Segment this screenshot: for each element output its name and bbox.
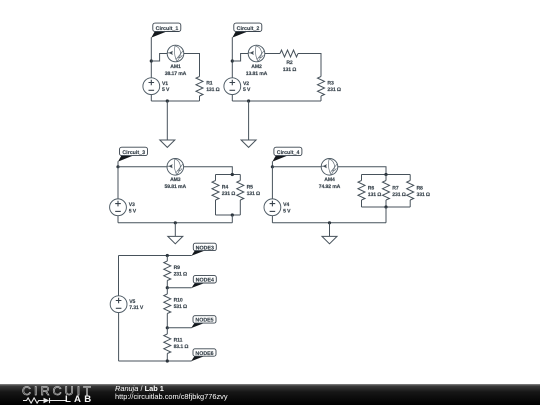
svg-text:531 Ω: 531 Ω [174,304,187,310]
wire R10 top lead [166,288,168,294]
node label NODE6 [191,349,216,362]
svg-text:231 Ω: 231 Ω [327,87,340,93]
wire AM3 to parallel resistors [184,167,233,175]
resistor R3 [318,77,325,97]
wire bottom circuit 1 [151,100,199,102]
wire V3 top lead [117,167,119,199]
svg-text:R3: R3 [327,81,334,87]
wire to ground circuit 4 [329,223,331,237]
wire step to AM1 [151,54,167,62]
svg-text:R8: R8 [417,185,424,191]
ground circuit 1 [160,140,175,147]
svg-text:AM1: AM1 [170,64,181,70]
svg-text:R4: R4 [222,184,229,190]
svg-text:R2: R2 [286,60,293,66]
wire feed down circuit 4 [385,207,387,223]
wire top bar parallel circuit 3 [216,174,241,176]
junction node circuit 1 [150,59,153,62]
node label NODE4 [191,276,216,288]
wire R5 top lead [239,175,241,181]
wire top circuit 5 [119,255,192,257]
svg-text:Circuit_4: Circuit_4 [277,150,300,156]
ammeter AM1 [167,45,184,62]
svg-text:59.81 mA: 59.81 mA [165,184,187,190]
wire R4 top lead [215,175,217,181]
wire V4 bottom lead [271,216,273,223]
url [115,393,228,400]
wire stem from Circuit_2 label to node [231,37,233,78]
svg-text:V3: V3 [129,202,135,208]
junction NODE6 [166,359,169,362]
voltage source V4 [264,199,281,216]
voltage source V5 [110,296,127,313]
svg-text:V2: V2 [243,81,249,87]
ground circuit 2 [241,140,256,147]
wire V5 top lead [118,256,120,296]
ammeter AM2 [248,45,265,62]
svg-text:131 Ω: 131 Ω [368,192,381,198]
ammeter AM4 [321,159,338,176]
wire R9 bottom lead [166,281,168,288]
wire V3 bottom lead [117,216,119,223]
junction NODE4 [166,286,169,289]
resistor R10 [164,294,171,314]
junction NODE5 [166,326,169,329]
svg-text:5 V: 5 V [162,87,170,93]
svg-text:R5: R5 [247,184,254,190]
voltage source V3 [110,199,127,216]
svg-text:R6: R6 [368,185,375,191]
wire R7 top lead [385,175,387,181]
wire V1 bottom lead [150,95,152,101]
svg-text:83.1 Ω: 83.1 Ω [174,344,189,350]
wire bottom circuit 2 [232,100,321,102]
svg-text:331 Ω: 331 Ω [417,192,430,198]
junction top bar circuit 3 [231,173,234,176]
junction bottom circuit 1 [166,99,169,102]
junction bottom circuit 2 [247,99,250,102]
wire V4 top lead [271,167,273,199]
wire top left circuit 3 [118,166,167,168]
svg-text:R1: R1 [206,81,213,87]
resistor R1 [196,77,203,97]
svg-text:5 V: 5 V [283,208,291,214]
wire R7 bottom lead [385,200,387,207]
junction bottom circuit 4 [328,221,331,224]
wire stub NODE5 [167,327,191,329]
wire R1 bottom lead [199,96,201,101]
node label Circuit_4 [272,147,302,161]
wire bottom bar parallel circuit 4 [362,206,411,208]
wire R10 bottom lead [166,314,168,328]
svg-text:AM2: AM2 [251,64,262,70]
wire R4 bottom lead [215,200,217,215]
wire bottom circuit 3 [118,222,232,224]
node label Circuit_2 [232,23,261,37]
resistor R2 [280,50,298,57]
svg-text:NODE5: NODE5 [195,318,213,324]
wire R11 top lead [166,328,168,334]
ground circuit 3 [168,236,183,243]
wire stem from Circuit_3 label [117,161,119,167]
junction node circuit 3 [116,165,119,168]
svg-text:R7: R7 [392,185,399,191]
wire AM1 to R1 [184,54,200,77]
wire to ground circuit 2 [248,101,250,140]
wire V2 bottom lead [231,95,233,101]
ground circuit 4 [322,236,337,243]
svg-text:131 Ω: 131 Ω [247,191,260,197]
wire AM4 to parallel resistors [338,167,386,175]
svg-text:R11: R11 [174,338,183,344]
wire R8 top lead [409,175,411,181]
svg-text:231 Ω: 231 Ω [222,191,235,197]
svg-text:131 Ω: 131 Ω [206,87,219,93]
node label NODE5 [191,316,216,328]
svg-text:NODE3: NODE3 [196,245,214,251]
svg-text:131 Ω: 131 Ω [283,67,296,73]
svg-text:Circuit_1: Circuit_1 [156,26,179,32]
node label NODE3 [191,243,216,256]
resistor R6 [358,181,365,201]
ammeter AM3 [167,159,184,176]
node label Circuit_1 [151,23,181,37]
wire R11 bottom lead [166,354,168,362]
svg-text:5 V: 5 V [243,87,251,93]
wire R9 top lead [166,256,168,262]
junction node NODE3 branch [166,254,169,257]
wire to ground circuit 3 [174,223,176,237]
author / title [115,385,164,392]
wire bottom bar parallel circuit 3 [216,214,241,216]
CircuitLab logo circuit glyph [23,397,67,404]
junction bottom bar circuit 4 [384,205,387,208]
wire R6 bottom lead [361,200,363,207]
wire R8 bottom lead [409,200,411,207]
wire V5 bottom lead [118,313,120,361]
voltage source V1 [143,78,160,95]
resistor R4 [212,181,219,201]
resistor R11 [164,334,171,354]
svg-text:AM3: AM3 [170,177,181,183]
wire stem from Circuit_4 label [271,161,273,167]
wire feed down circuit 3 [231,215,233,223]
svg-text:R10: R10 [174,298,183,304]
wire R5 bottom lead [239,200,241,215]
svg-text:NODE6: NODE6 [195,351,213,357]
footer bar [0,384,540,405]
voltage source V2 [224,78,241,95]
CircuitLab logo LAB [65,395,94,405]
svg-text:V1: V1 [162,81,168,87]
wire bottom circuit 4 [272,222,386,224]
resistor R8 [407,181,414,201]
svg-text:Circuit_3: Circuit_3 [122,150,145,156]
junction node circuit 4 [271,165,274,168]
svg-text:7.31 V: 7.31 V [129,305,144,311]
svg-text:V5: V5 [129,299,135,305]
svg-text:NODE4: NODE4 [196,278,214,284]
resistor R5 [237,181,244,201]
wire top left circuit 4 [272,166,321,168]
junction top bar circuit 4 [384,173,387,176]
wire top bar parallel circuit 4 [362,174,411,176]
node label Circuit_3 [118,147,148,161]
wire step to AM2 [232,54,248,62]
svg-text:231 Ω: 231 Ω [174,272,187,278]
resistor R9 [164,261,171,281]
wire R6 top lead [361,175,363,181]
svg-text:74.92 mA: 74.92 mA [319,184,341,190]
junction bottom bar circuit 3 [231,213,234,216]
junction node circuit 2 [231,59,234,62]
svg-text:V4: V4 [283,202,289,208]
svg-text:AM4: AM4 [324,177,335,183]
svg-text:R9: R9 [174,265,181,271]
wire to ground circuit 1 [166,101,168,140]
wire R2 to R3 [298,54,321,77]
wire AM2 to R2 [265,53,280,55]
resistor R7 [383,181,390,201]
svg-text:5 V: 5 V [129,208,137,214]
svg-text:231 Ω: 231 Ω [392,192,405,198]
junction bottom circuit 3 [174,221,177,224]
svg-text:38.17 mA: 38.17 mA [165,71,187,77]
wire stub NODE4 [167,287,191,289]
CircuitLab logo CIRCUIT [22,385,94,397]
svg-text:13.81 mA: 13.81 mA [246,71,268,77]
wire R3 bottom lead [320,96,322,101]
wire stem from Circuit_1 label to node [150,37,152,78]
wire bottom circuit 5 [119,360,192,362]
svg-text:Circuit_2: Circuit_2 [237,26,260,32]
